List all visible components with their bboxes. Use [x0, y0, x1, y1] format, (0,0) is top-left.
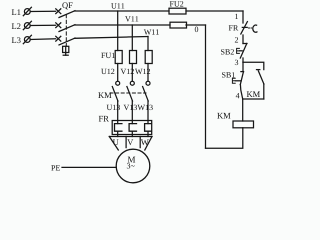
label L1: [12, 9, 21, 15]
label node 1: [235, 14, 238, 19]
wire W fuse to KM contact: [147, 64, 149, 82]
wire PE to motor: [62, 166, 116, 168]
label KM aux: [247, 91, 260, 97]
label L2: [12, 23, 21, 29]
label V13: [124, 105, 137, 110]
QF mechanical linkage dashed: [65, 15, 67, 47]
contactor KM main contact W: [143, 81, 150, 101]
node 3 branch to KM aux: [243, 62, 264, 69]
KM main linkage dashed: [110, 92, 146, 94]
label SB2: [221, 49, 234, 54]
label FR contact: [229, 25, 239, 30]
QF trip unit box: [63, 46, 69, 55]
FR heater element W: [145, 124, 152, 132]
wire phase V to 0 corner: [186, 24, 206, 26]
wire L3 to QF: [30, 38, 55, 41]
thermal relay FR heater box: [112, 121, 152, 135]
label 3~: [127, 163, 135, 168]
wire phase W horizontal: [75, 37, 149, 39]
wire FR to SB2: [242, 35, 244, 44]
node W11 drop wire: [147, 37, 149, 51]
wire 0 vertical: [205, 25, 207, 148]
wire L1 to QF: [30, 10, 55, 12]
label KM coil: [217, 113, 230, 119]
wire W KM to FR: [147, 101, 149, 124]
label M: [128, 157, 135, 163]
motor terminal box: [109, 137, 152, 151]
fuse FU1 phase V: [130, 51, 137, 64]
wire phase U horizontal to control corner: [186, 10, 243, 12]
contactor KM auxiliary contact: [257, 70, 264, 99]
label FU2: [170, 1, 184, 6]
wire phase V horizontal: [75, 24, 171, 26]
terminal L1: [23, 7, 31, 15]
contactor KM main contact U: [112, 81, 119, 101]
node V11 drop wire: [131, 25, 133, 51]
wire SB2 to node 3: [242, 58, 244, 62]
breaker QF pole 1 contact: [56, 9, 75, 18]
wire coil to bottom: [206, 128, 243, 148]
label node 2: [235, 37, 238, 42]
terminal L3: [23, 35, 31, 43]
fuse FU1 phase U: [115, 51, 122, 64]
wire node 4 to coil: [242, 99, 244, 121]
label FR main: [99, 116, 109, 122]
node U11 drop wire: [117, 11, 119, 51]
control circuit top corner: [242, 11, 244, 23]
label SB1: [222, 72, 235, 77]
label terminal W: [141, 139, 149, 145]
label U12: [101, 69, 114, 74]
label V11: [125, 16, 138, 21]
pushbutton SB2 stop contact: [237, 44, 247, 59]
contactor KM main contact V: [127, 81, 134, 101]
terminal L2: [23, 21, 31, 29]
label U13: [107, 105, 120, 110]
label V12: [121, 69, 134, 74]
motor M circle: [116, 149, 150, 183]
wire V fuse to KM contact: [131, 64, 133, 82]
label L3: [12, 37, 21, 43]
wire U KM to FR: [117, 101, 119, 124]
label node 3: [235, 60, 238, 65]
label W12: [135, 69, 150, 74]
FR heater element V: [129, 124, 136, 132]
label U11: [111, 3, 124, 8]
label PE: [51, 165, 60, 170]
fuse FU1 phase W: [145, 51, 152, 64]
wire U fuse to KM contact: [117, 64, 119, 82]
label QF: [62, 2, 72, 9]
fuse FU2 upper: [169, 8, 186, 14]
label W13: [138, 105, 153, 110]
label node 0: [195, 27, 198, 32]
FR heater element U: [115, 124, 122, 132]
wire W FR to terminal: [147, 131, 149, 136]
wire phase U horizontal: [75, 10, 170, 12]
breaker QF pole 3 contact: [56, 36, 75, 45]
label terminal V: [127, 139, 133, 145]
breaker QF pole 2 contact: [56, 23, 75, 32]
wire SB1 to node 4: [240, 85, 242, 99]
label FU1: [101, 53, 115, 58]
pushbutton SB1 start contact: [232, 62, 243, 84]
label KM main: [98, 92, 111, 98]
label node 4: [236, 93, 240, 98]
label W11: [144, 29, 159, 34]
contactor KM coil: [233, 121, 254, 128]
wire V KM to FR: [131, 101, 133, 124]
label terminal U: [113, 139, 119, 145]
wire L2 to QF: [30, 24, 55, 26]
node 4 joining wire: [243, 98, 264, 100]
wire U FR to terminal: [117, 131, 119, 136]
thermal relay FR contact: [241, 22, 257, 34]
fuse FU2 lower: [170, 22, 187, 28]
wire V FR to terminal: [131, 131, 133, 136]
